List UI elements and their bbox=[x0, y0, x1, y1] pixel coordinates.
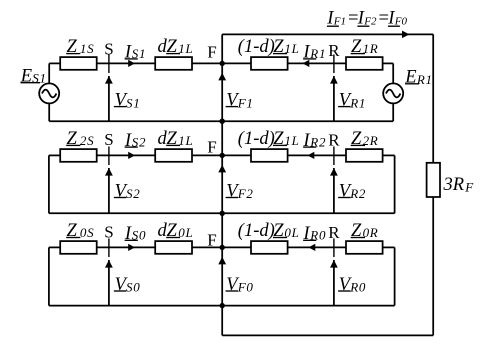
svg-text:R1: R1 bbox=[416, 72, 433, 87]
svg-text:I: I bbox=[124, 224, 132, 244]
svg-text:R: R bbox=[328, 41, 340, 60]
svg-text:F2: F2 bbox=[363, 15, 377, 27]
svg-text:F: F bbox=[464, 180, 474, 195]
svg-text:R: R bbox=[328, 223, 340, 242]
svg-text:3R: 3R bbox=[443, 175, 465, 195]
svg-text:I: I bbox=[302, 224, 310, 244]
svg-text:S1: S1 bbox=[32, 71, 46, 86]
svg-text:S2: S2 bbox=[126, 186, 140, 201]
svg-text:E: E bbox=[404, 68, 416, 88]
svg-text:I: I bbox=[124, 131, 132, 151]
svg-text:F0: F0 bbox=[394, 15, 408, 27]
svg-text:I: I bbox=[124, 43, 132, 63]
svg-text:F: F bbox=[207, 42, 216, 61]
svg-text:R0: R0 bbox=[349, 280, 366, 295]
svg-text:(1-d): (1-d) bbox=[238, 37, 275, 57]
svg-text:R2: R2 bbox=[349, 186, 366, 201]
svg-text:(1-d): (1-d) bbox=[238, 129, 275, 149]
svg-text:F0: F0 bbox=[237, 280, 254, 295]
svg-text:F1: F1 bbox=[333, 15, 346, 27]
svg-text:S: S bbox=[104, 40, 113, 59]
svg-text:F: F bbox=[207, 138, 216, 157]
svg-text:I: I bbox=[302, 131, 310, 151]
svg-text:S: S bbox=[104, 222, 113, 241]
svg-text:S: S bbox=[104, 130, 113, 149]
svg-text:S0: S0 bbox=[126, 280, 140, 295]
svg-text:R: R bbox=[328, 130, 340, 149]
svg-text:0L: 0L bbox=[178, 225, 193, 240]
svg-text:I: I bbox=[302, 43, 310, 63]
svg-text:F1: F1 bbox=[237, 95, 254, 110]
svg-text:1S: 1S bbox=[80, 41, 94, 56]
svg-text:S1: S1 bbox=[126, 95, 140, 110]
svg-text:E: E bbox=[20, 67, 32, 87]
svg-text:0S: 0S bbox=[80, 225, 94, 240]
svg-text:2S: 2S bbox=[80, 133, 94, 148]
svg-text:1L: 1L bbox=[178, 41, 193, 56]
svg-text:R1: R1 bbox=[349, 95, 366, 110]
svg-text:F2: F2 bbox=[237, 186, 254, 201]
svg-text:1L: 1L bbox=[178, 133, 193, 148]
svg-text:F: F bbox=[207, 230, 216, 249]
svg-text:(1-d): (1-d) bbox=[238, 221, 275, 241]
